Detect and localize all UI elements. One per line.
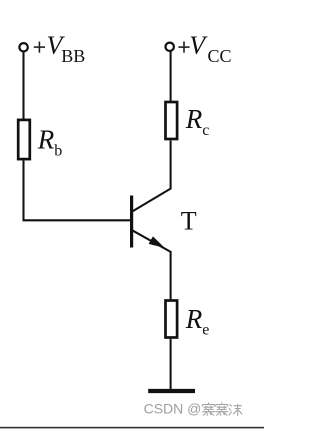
svg-text:R: R (37, 125, 55, 155)
bottom rule (0, 427, 264, 429)
ground (148, 389, 195, 393)
emitter arrow (149, 237, 163, 247)
label +VCC (178, 42, 189, 53)
wire emitter to Re (170, 251, 172, 300)
svg-text:CC: CC (208, 46, 232, 66)
transistor T base bar (130, 196, 133, 248)
svg-text:V: V (189, 31, 208, 60)
wire Re to ground (170, 339, 172, 389)
wire Rc to collector (170, 141, 172, 190)
resistor Rb (18, 120, 30, 159)
resistor Re (166, 301, 178, 338)
label +VBB (34, 42, 45, 53)
svg-text:R: R (185, 104, 203, 134)
transistor collector line (132, 188, 171, 211)
transistor emitter line (132, 230, 171, 252)
svg-text:c: c (202, 122, 209, 139)
svg-text:BB: BB (61, 46, 85, 66)
svg-text:R: R (185, 304, 203, 334)
svg-text:b: b (54, 143, 62, 160)
terminal +VBB (19, 43, 27, 51)
watermark hanzi mo (229, 404, 243, 416)
svg-text:T: T (181, 207, 197, 236)
wire Rb to base (24, 161, 131, 221)
svg-text:e: e (202, 321, 209, 338)
wire VBB to Rb (22, 52, 24, 119)
watermark hanzi han2 (215, 402, 228, 415)
resistor Rc (166, 102, 178, 139)
terminal +VCC (166, 43, 174, 51)
wire VCC to Rc (170, 51, 172, 101)
svg-text:CSDN @: CSDN @ (144, 400, 202, 416)
watermark hanzi han1 (202, 402, 215, 415)
